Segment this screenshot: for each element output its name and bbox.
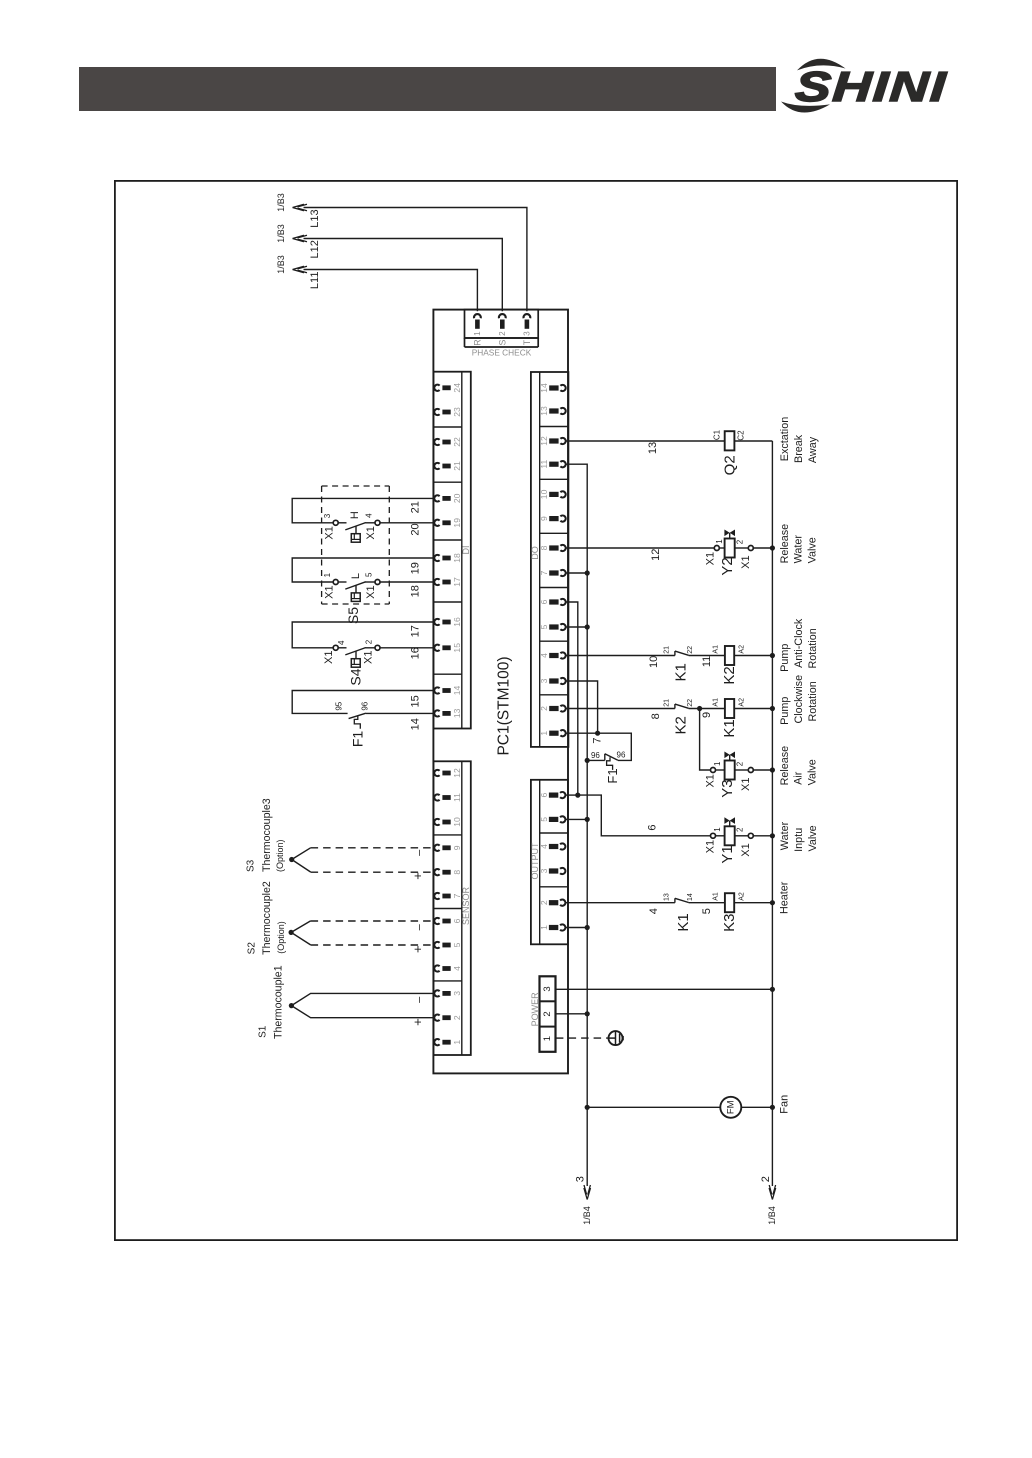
svg-text:K2: K2 [721,666,738,684]
svg-text:Release: Release [779,746,791,786]
wire 11 between K1 and K2 coil [689,655,725,657]
S5 H cam box [351,534,360,543]
label Exctation Break Away [779,417,819,463]
svg-text:14: 14 [687,893,694,901]
svg-text:7: 7 [591,738,603,744]
solenoid valve Y1 left terminal circle [711,833,716,838]
svg-text:19: 19 [410,562,422,574]
svg-text:Inptu: Inptu [793,828,805,852]
S5 L right terminal X1 circle [375,580,380,585]
svg-text:SENSOR: SENSOR [461,886,471,925]
svg-text:21: 21 [452,461,462,471]
thermocouple S2 junction [289,930,294,935]
svg-text:20: 20 [452,493,462,503]
svg-text:1: 1 [713,761,722,766]
solenoid valve Y3 left terminal circle [711,768,716,773]
wire L12 from phase check pin 2 [304,239,503,312]
valve Y1 coil body [725,826,735,845]
svg-text:11: 11 [452,793,462,802]
svg-text:3: 3 [539,678,549,683]
svg-text:–: – [414,849,426,856]
thermocouple S3 dashed wires to SENSOR pins 9 and 8 [292,848,435,872]
svg-text:Release: Release [779,524,791,564]
wire S5 L to DI pin 17 [365,581,434,583]
wire F1 to DI pin 13 [366,712,434,714]
svg-text:(Option): (Option) [275,839,285,872]
right-side connector pin 9 [539,516,565,522]
junction POWER 2 at neutral wire [585,1011,590,1016]
svg-text:2: 2 [452,1015,462,1020]
svg-text:S: S [497,340,507,346]
svg-text:2: 2 [539,900,549,905]
svg-text:11: 11 [539,460,549,469]
valve Y2 right terminal circle [748,546,753,551]
S5 L contact blade and stem [338,582,365,593]
right-side connector pin 11 [539,460,565,469]
right-side connector pin 2 [539,900,565,906]
arrow L13 off-page [293,204,308,211]
svg-text:1: 1 [542,1036,553,1041]
right-side connector pin 4 [539,843,565,849]
svg-text:1: 1 [323,572,332,577]
svg-text:X1: X1 [704,552,716,565]
wire L13 from phase check pin 3 [304,208,527,312]
svg-text:14: 14 [539,383,549,393]
PHASE CHECK pin 3 (T) [522,314,532,345]
svg-text:6: 6 [539,599,549,604]
svg-text:X1: X1 [705,774,717,787]
svg-text:21: 21 [664,699,671,707]
svg-text:(Option): (Option) [276,921,286,954]
solenoid valve Y2 left terminal circle [714,546,719,551]
svg-text:10: 10 [539,489,549,499]
svg-text:Clockwise: Clockwise [793,675,805,724]
right-side connector pin 12 [539,436,565,446]
svg-text:1/B3: 1/B3 [276,224,286,243]
svg-text:14: 14 [452,686,462,696]
thermocouple S1 junction [289,1003,294,1008]
svg-text:+: + [410,1018,425,1026]
svg-text:10: 10 [452,817,462,827]
protective earth ground symbol [609,1031,624,1045]
junction fan row at neutral wire [585,1105,590,1110]
DI connector pin 22 [434,437,461,447]
thermal contact F1 (overload) near DO [587,754,618,770]
svg-text:Valve: Valve [807,759,819,785]
DI connector pin 18 [434,553,461,563]
S5 H contact blade and stem [338,523,365,534]
svg-text:PHASE CHECK: PHASE CHECK [472,348,532,358]
svg-text:12: 12 [539,436,549,446]
svg-text:6: 6 [647,825,659,831]
arrow L11 off-page [293,266,308,273]
svg-text:K1: K1 [721,719,738,737]
svg-text:S1: S1 [257,1025,268,1038]
right-side connector pin 5 [539,816,565,822]
svg-text:3: 3 [574,1176,586,1182]
valve Y2 X1 terminal labels [704,552,752,569]
svg-text:Pump: Pump [779,644,791,672]
svg-text:1/B4: 1/B4 [767,1206,777,1225]
svg-text:2: 2 [539,706,549,711]
connector DI body [433,372,470,729]
thermocouple S2 dashed wires to SENSOR pins 6 and 5 [291,921,434,945]
svg-text:96: 96 [591,751,600,760]
svg-text:–: – [414,996,426,1003]
wire L11 from phase check pin 1 [304,270,478,312]
junction at OUTPUT pin 6 [575,793,580,798]
wire loop from DI pin (row 622.0) to contact row 647.8 [292,622,434,648]
label Pump Anti-Clock Rotation [779,618,819,672]
junction OUTPUT pin 1 [585,925,590,930]
svg-text:X1: X1 [365,585,377,598]
svg-text:+: + [410,872,425,880]
label S1 Thermocouple1 [257,965,284,1039]
wire K2 coil to right bus [734,655,772,657]
svg-text:Valve: Valve [807,825,819,851]
svg-text:4: 4 [337,640,346,645]
wire branch down to valve Y3 [700,709,711,771]
wire S5 H to DI pin 19 [365,522,434,524]
right-side connector pin 6 [539,599,565,605]
valve Y1 right terminal circle [748,833,753,838]
wire OUTPUT pin 1 stub [566,927,587,929]
valve Y2 coil body [725,539,735,558]
junction node 7 at DO pin 1 wire [595,731,600,736]
switch S4 left terminal X1 circle [333,645,338,650]
breaker contact Q2 body [725,431,735,450]
svg-text:4: 4 [648,908,660,914]
wire loop from DI pin (row 690.5) to contact row 713.4 [292,691,434,714]
svg-text:Thermocouple3: Thermocouple3 [261,798,273,872]
svg-text:DI: DI [461,546,471,555]
DI connector pin 24 [434,383,461,393]
svg-text:9: 9 [701,712,713,718]
svg-text:S2: S2 [246,942,257,955]
svg-text:14: 14 [410,718,422,730]
F1 thermal release hook [354,716,360,729]
PHASE CHECK pin 2 (S) [497,314,507,345]
svg-text:23: 23 [452,407,462,417]
svg-text:1: 1 [715,539,724,544]
junction K2 row at right bus [770,653,775,658]
svg-text:8: 8 [452,870,462,875]
svg-text:6: 6 [539,792,549,797]
svg-text:17: 17 [452,577,462,587]
svg-text:X1: X1 [740,555,752,568]
svg-text:4: 4 [452,966,462,971]
DI connector pin 6 [434,918,461,924]
svg-text:13: 13 [647,442,659,454]
svg-text:21: 21 [410,501,422,513]
svg-text:6: 6 [452,918,462,923]
DI connector pin 7 [434,893,461,899]
svg-text:1: 1 [473,331,482,336]
DI connector pin 8 [434,869,461,875]
label Release Air Valve [779,746,819,786]
DI connector pin 3 [434,990,461,996]
connector POWER body [540,976,556,1052]
junction F1 at neutral wire [585,758,590,763]
svg-text:7: 7 [452,893,462,898]
svg-text:2: 2 [760,1176,772,1182]
svg-text:10: 10 [648,656,660,668]
right-side connector pin 2 [539,705,565,711]
S5 H right terminal X1 circle [375,520,380,525]
wire 5 between K1 and K3 coil [689,902,725,904]
S4 contact blade and stem [338,648,365,659]
relay contact K1 (13-14) [674,898,676,902]
schematic drawing [114,180,958,1241]
svg-text:X1: X1 [362,650,374,663]
svg-text:3: 3 [323,513,332,518]
svg-text:F1: F1 [350,731,366,748]
valve Y2 actuator bowtie [724,530,735,537]
arrow neutral wire off-page 1/B4 [584,1185,591,1200]
svg-text:L12: L12 [309,240,321,258]
wire FM to right bus [741,1106,772,1108]
junction K3 row at right bus [770,900,775,905]
DI connector pin 1 [434,1039,461,1045]
svg-text:18: 18 [410,585,422,597]
svg-text:5: 5 [452,942,462,947]
svg-text:C1: C1 [713,429,722,440]
svg-text:X1: X1 [323,585,335,598]
connector DO body [531,372,569,747]
label Pump Clockwise Rotation [779,675,819,725]
svg-text:1: 1 [539,731,549,736]
svg-text:A2: A2 [739,698,746,707]
svg-text:2: 2 [736,539,745,544]
right-side connector pin 14 [539,383,565,393]
svg-text:Water: Water [779,821,791,850]
svg-text:2: 2 [542,1011,553,1016]
valve Y3 coil body [725,761,735,780]
svg-text:3: 3 [539,868,549,873]
svg-text:H: H [349,511,361,519]
svg-text:Anti-Clock: Anti-Clock [793,618,805,668]
connector PHASE CHECK body [465,310,539,347]
svg-text:2: 2 [736,827,745,832]
PHASE CHECK pin 1 (R) [472,314,482,346]
wire 4 from OUTPUT pin 2 [566,902,675,904]
header bar [79,67,776,111]
right-side connector pin 10 [539,489,565,499]
wire DO pin 1 to F1 jog [566,733,631,760]
svg-text:17: 17 [410,625,422,637]
wire from DO pin 6 down to OUTPUT pin 6 node [566,602,578,795]
wire POWER pin 3 to right bus [556,988,773,990]
S5 L cam box [351,593,360,602]
svg-text:12: 12 [452,768,462,778]
valve Y3 X1 terminal labels [705,774,753,791]
svg-text:7: 7 [539,570,549,575]
svg-text:A1: A1 [713,698,720,707]
svg-text:19: 19 [452,518,462,528]
svg-text:Fan: Fan [779,1095,791,1114]
wire Q2 to right bus [734,440,772,442]
svg-text:5: 5 [365,572,374,577]
svg-text:T: T [522,339,532,345]
svg-text:S4: S4 [348,668,364,685]
S4 cam box [351,659,360,668]
svg-text:18: 18 [452,553,462,563]
DI connector pin 12 [434,768,461,778]
svg-text:X1: X1 [705,840,717,853]
svg-text:PC1(STM100): PC1(STM100) [496,656,513,755]
svg-text:2: 2 [498,331,507,336]
DI connector pin 2 [434,1015,461,1021]
wire 8 from DO pin 2 [566,708,675,710]
DI connector pin 13 [434,708,461,718]
svg-text:X1: X1 [740,843,752,856]
valve Y1 actuator bowtie [724,817,735,824]
svg-text:K1: K1 [673,663,690,681]
DI connector pin 9 [434,845,461,851]
S4 right terminal X1 circle [375,645,380,650]
label Release Water Valve [779,524,819,564]
right-side connector pin 13 [539,406,565,416]
connector OUTPUT body [531,780,568,945]
svg-text:16: 16 [452,617,462,627]
svg-text:1: 1 [452,1040,462,1045]
svg-text:20: 20 [410,523,422,535]
DI connector pin 14 [434,686,461,696]
label Water Inptu Valve [779,821,819,851]
selector switch S5 dashed frame [322,486,390,604]
svg-text:Air: Air [793,771,805,785]
svg-text:1: 1 [539,925,549,930]
svg-text:9: 9 [539,516,549,521]
wire loop from DI pin (row 558.0) to contact row 582.0 [292,558,434,582]
svg-text:X1: X1 [740,777,752,790]
svg-text:Y2: Y2 [719,557,736,575]
svg-text:Exctation: Exctation [779,417,791,461]
right-side connector pin 1 [539,924,565,930]
DI connector pin 19 [434,518,461,528]
wire Y2 segments [719,547,772,549]
connector SENSOR body [433,761,470,1055]
right-side connector pin 1 [539,730,565,736]
svg-text:1: 1 [713,827,722,832]
svg-text:SHINI: SHINI [794,64,949,110]
wire DO pin 5 stub [566,626,587,628]
svg-text:13: 13 [452,708,462,718]
svg-text:4: 4 [539,844,549,849]
valve Y3 right terminal circle [748,768,753,773]
svg-text:3: 3 [542,986,553,991]
svg-text:Away: Away [807,436,819,463]
svg-text:Q2: Q2 [721,455,738,475]
DI connector pin 4 [434,965,461,971]
fan motor FM [720,1097,741,1118]
controller PC1 block outline [433,310,568,1074]
DI connector pin 20 [434,493,461,503]
svg-text:A1: A1 [713,892,720,901]
svg-text:X1: X1 [323,526,335,539]
DI connector pin 23 [434,407,461,417]
svg-text:L13: L13 [309,209,321,227]
DI connector pin 5 [434,942,461,948]
arrow L12 off-page [293,235,308,242]
right bus vertical wire [771,441,773,1186]
wire K1 coil to right bus [734,708,772,710]
svg-text:2: 2 [736,761,745,766]
label S3 Thermocouple3 (Option) [246,798,286,872]
junction DO pin 5 [585,624,590,629]
junction fan row at right bus [770,1105,775,1110]
relay coil K2 [725,646,734,665]
wire 6 from OUTPUT pin 6 to valve Y1 [578,795,711,836]
right-side connector pin 5 [539,624,565,630]
wire DO pin 7 stub [566,572,587,574]
wire 13 from DO pin 12 to breaker Q2 [566,440,725,442]
svg-text:A1: A1 [713,645,720,654]
svg-text:Water: Water [793,535,805,564]
junction branch to Y3 [697,706,702,711]
svg-text:S3: S3 [246,859,257,872]
right-side connector pin 8 [539,545,565,551]
junction POWER 3 at right bus [770,987,775,992]
wire loop from DI pin (row 498.4) to contact row 522.8 [292,498,434,522]
wire 10 from DO pin 4 [566,655,675,657]
svg-text:Pump: Pump [779,697,791,725]
svg-text:X1: X1 [323,650,335,663]
svg-text:5: 5 [539,624,549,629]
svg-text:96: 96 [617,751,626,760]
svg-text:9: 9 [452,845,462,850]
junction DO pin 7 [585,570,590,575]
svg-text:15: 15 [410,695,422,707]
svg-text:13: 13 [664,893,671,901]
svg-text:4: 4 [539,653,549,658]
switch S5 contact L left terminal X1 circle [333,580,338,585]
svg-text:5: 5 [701,908,713,914]
svg-text:1/B4: 1/B4 [582,1206,592,1225]
svg-text:3: 3 [452,991,462,996]
right-side connector pin 3 [539,678,565,684]
valve Y3 actuator bowtie [724,752,735,759]
junction OUTPUT pin 5 [585,817,590,822]
svg-text:1/B3: 1/B3 [276,193,286,212]
label S2 Thermocouple2 (Option) [246,881,286,955]
svg-text:K1: K1 [675,913,692,931]
wire from DO pin 3 down to node 7 [566,681,598,733]
svg-text:22: 22 [687,699,694,707]
svg-text:22: 22 [687,646,694,654]
wire K3 coil to right bus [734,902,772,904]
wire OUTPUT pin 6 stub [566,794,578,796]
svg-text:Y3: Y3 [719,779,736,797]
thermocouple S1 wires to SENSOR pins 3 and 2 [291,993,434,1017]
svg-text:13: 13 [539,406,549,416]
page frame border [115,181,957,1240]
svg-text:Break: Break [793,434,805,463]
relay contact K2 (21-22) [674,704,676,708]
svg-text:F1: F1 [605,768,620,783]
svg-text:Thermocouple2: Thermocouple2 [261,881,273,955]
DI connector pin 17 [434,577,461,587]
svg-text:A2: A2 [739,892,746,901]
arrow right bus off-page 1/B4 [769,1185,776,1200]
dashed earth wire from POWER pin 1 [556,1037,609,1039]
junction Y3 at right bus [770,767,775,772]
junction Y1 at right bus [770,833,775,838]
right-side connector pin 6 [539,792,565,798]
DI connector pin 21 [434,461,461,471]
svg-text:L11: L11 [309,272,321,290]
svg-text:Heater: Heater [778,881,790,914]
